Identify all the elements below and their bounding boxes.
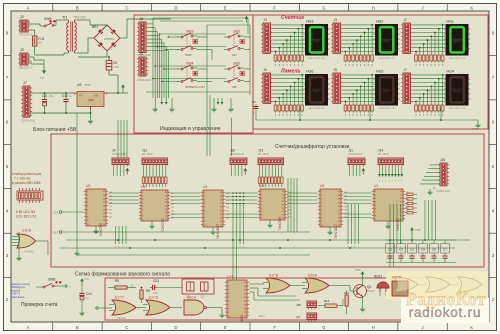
svg-text:J4: J4 bbox=[264, 18, 268, 22]
svg-text:Tr1: Tr1 bbox=[62, 16, 67, 20]
display section bottom rail bbox=[256, 119, 478, 121]
svg-text:7805: 7805 bbox=[84, 83, 91, 87]
svg-text:R6: R6 bbox=[146, 289, 150, 293]
ground below U9 bbox=[90, 118, 92, 121]
connector J4 bbox=[263, 23, 271, 53]
svg-text:K: K bbox=[470, 325, 473, 330]
svg-text:HG6: HG6 bbox=[306, 70, 313, 74]
svg-text:Блок питания +5В: Блок питания +5В bbox=[33, 127, 77, 133]
svg-text:74HC595: 74HC595 bbox=[161, 218, 165, 232]
svg-text:CONN-SIL5: CONN-SIL5 bbox=[230, 152, 244, 156]
PWR arrow capacitor bank bbox=[411, 228, 413, 234]
resistor array under HG4 bbox=[415, 105, 418, 111]
svg-text:4060: 4060 bbox=[240, 315, 244, 322]
svg-text:J1: J1 bbox=[20, 15, 24, 19]
svg-text:1A: 1A bbox=[39, 41, 43, 45]
svg-text:ПОЛ2: ПОЛ2 bbox=[185, 54, 192, 57]
svg-text:C3: C3 bbox=[399, 247, 403, 251]
svg-text:Счетчик/дешифратор установки: Счетчик/дешифратор установки bbox=[275, 144, 350, 150]
section border: display block bbox=[253, 15, 488, 129]
svg-text:20u: 20u bbox=[49, 94, 54, 98]
svg-text:MPX1: MPX1 bbox=[384, 91, 391, 93]
svg-text:J5: J5 bbox=[139, 52, 143, 56]
svg-text:U3: U3 bbox=[260, 184, 264, 188]
svg-text:C23: C23 bbox=[153, 279, 159, 283]
svg-text:radiokot.ru: radiokot.ru bbox=[409, 305, 482, 320]
svg-text:SW1: SW1 bbox=[233, 30, 240, 34]
svg-text:MPX1: MPX1 bbox=[314, 41, 321, 43]
svg-text:G: G bbox=[322, 6, 325, 11]
svg-text:HG4: HG4 bbox=[447, 70, 454, 74]
svg-text:B: B bbox=[76, 6, 79, 11]
resistor array under J12 bbox=[142, 167, 167, 192]
svg-text:J16: J16 bbox=[440, 158, 445, 162]
svg-text:Индикация и управление: Индикация и управление bbox=[160, 126, 221, 132]
svg-text:U10, В12 U13: U10, В12 U13 bbox=[16, 215, 36, 219]
watermark ghost panel bbox=[386, 271, 488, 299]
resistor array under HG6 bbox=[274, 105, 277, 111]
wires connecting switch rows bbox=[197, 25, 250, 95]
ground under Q2 bbox=[362, 306, 364, 309]
svg-text:C: C bbox=[125, 325, 128, 330]
svg-text:J5: J5 bbox=[334, 68, 338, 72]
svg-text:U9: U9 bbox=[77, 83, 81, 87]
resistor array under HG3 bbox=[274, 55, 277, 61]
resistor network symbol bbox=[17, 188, 43, 203]
arrow row under J14 bbox=[378, 167, 403, 183]
wire fan J2 to HG1 bbox=[413, 24, 445, 55]
ground symbols bottom of indication section bbox=[154, 98, 156, 106]
svg-text:HG3: HG3 bbox=[306, 20, 313, 24]
buzzer BUZ1 re-stamp over panel bbox=[377, 282, 389, 288]
bottom rail of indication section bbox=[146, 91, 250, 93]
svg-text:VD: VD bbox=[40, 76, 44, 80]
svg-text:BR1: BR1 bbox=[92, 25, 98, 29]
svg-text:U23:A: U23:A bbox=[308, 274, 318, 278]
svg-text:J9: J9 bbox=[112, 148, 116, 152]
junction dots on buses bbox=[117, 239, 119, 241]
svg-text:74HC4017: 74HC4017 bbox=[334, 224, 338, 239]
section border: sound block bbox=[105, 278, 478, 320]
svg-text:U17:B: U17:B bbox=[269, 274, 278, 278]
svg-text:CONN-SIL5: CONN-SIL5 bbox=[348, 152, 362, 156]
svg-text:0.1u: 0.1u bbox=[153, 291, 159, 295]
svg-text:74HC4017: 74HC4017 bbox=[216, 224, 220, 239]
svg-text:J2: J2 bbox=[20, 48, 24, 52]
crystal network ZQ1 bbox=[182, 279, 214, 299]
svg-text:BUZ1: BUZ1 bbox=[374, 275, 382, 279]
svg-text:J14: J14 bbox=[378, 148, 383, 152]
svg-text:7SEG-MPX1-CA: 7SEG-MPX1-CA bbox=[308, 57, 325, 60]
svg-text:C7: C7 bbox=[443, 247, 447, 251]
fuse FU1 bbox=[33, 36, 38, 46]
svg-text:J3: J3 bbox=[334, 18, 338, 22]
svg-text:ML-16GF: ML-16GF bbox=[142, 152, 153, 156]
svg-text:7SEG-MPX1-CA: 7SEG-MPX1-CA bbox=[449, 57, 466, 60]
connector J37 bbox=[307, 313, 317, 320]
svg-text:B: B bbox=[76, 325, 79, 330]
svg-text:U21: U21 bbox=[227, 275, 233, 279]
svg-text:74HC595: 74HC595 bbox=[396, 218, 400, 232]
bridge rectifier BR1 bbox=[92, 25, 120, 51]
section border: indication and control bbox=[134, 15, 253, 133]
terminal circles bbox=[65, 285, 67, 287]
svg-text:HG1: HG1 bbox=[447, 20, 454, 24]
svg-text:MPX1: MPX1 bbox=[454, 41, 461, 43]
connector J38 bbox=[307, 301, 317, 308]
left vertical wires to bottom bbox=[18, 67, 20, 255]
capacitor C24 bbox=[81, 285, 83, 293]
svg-text:C10: C10 bbox=[62, 94, 68, 98]
svg-text:Ламель: Ламель bbox=[280, 69, 301, 75]
svg-text:J6: J6 bbox=[264, 68, 268, 72]
svg-text:TBLOCK-I2: TBLOCK-I2 bbox=[19, 66, 33, 70]
svg-text:C4: C4 bbox=[410, 247, 414, 251]
svg-text:C22: C22 bbox=[200, 296, 205, 299]
svg-text:GND: GND bbox=[88, 98, 94, 102]
resistor array under J13 bbox=[258, 167, 283, 192]
svg-text:Счетчик: Счетчик bbox=[281, 15, 304, 21]
svg-text:J37: J37 bbox=[296, 315, 301, 319]
wires from U21 to gates bbox=[249, 284, 300, 300]
svg-text:MPX1: MPX1 bbox=[384, 41, 391, 43]
svg-text:2W005G: 2W005G bbox=[104, 37, 114, 41]
svg-text:PWR: PWR bbox=[355, 269, 361, 272]
svg-text:D: D bbox=[175, 6, 178, 11]
svg-text:J8: J8 bbox=[139, 17, 143, 21]
input wire from check area bbox=[96, 307, 98, 309]
svg-text:R14: R14 bbox=[324, 299, 330, 303]
svg-text:CONN-SIL5: CONN-SIL5 bbox=[137, 78, 151, 82]
svg-text:J38: J38 bbox=[296, 303, 301, 307]
svg-text:в разъём МВ1-МВ6: в разъём МВ1-МВ6 bbox=[12, 181, 41, 185]
connector J2 bbox=[403, 23, 411, 53]
svg-text:J10: J10 bbox=[230, 148, 235, 152]
svg-text:CLK: CLK bbox=[53, 211, 59, 215]
svg-text:C11: C11 bbox=[42, 94, 48, 98]
transistor Q2 bbox=[338, 280, 375, 306]
svg-text:SW2: SW2 bbox=[233, 62, 240, 66]
svg-text:C: C bbox=[125, 6, 128, 11]
svg-text:ML-16GF: ML-16GF bbox=[378, 152, 389, 156]
long horizontal bus wires bbox=[66, 239, 470, 241]
svg-text:TBLOCK-I2: TBLOCK-I2 bbox=[19, 33, 33, 37]
svg-text:J: J bbox=[421, 325, 423, 330]
svg-text:VCC: VCC bbox=[84, 278, 89, 281]
svg-text:C4: C4 bbox=[252, 100, 256, 104]
wire fan J4 to HG3 bbox=[273, 24, 305, 55]
svg-text:1u: 1u bbox=[86, 296, 90, 300]
svg-text:MPX1: MPX1 bbox=[314, 91, 321, 93]
wires IC interconnect bbox=[108, 192, 371, 217]
svg-text:D: D bbox=[175, 325, 178, 330]
svg-text:SW3: SW3 bbox=[186, 30, 193, 34]
connector J3 bbox=[333, 23, 341, 53]
svg-text:VI: VI bbox=[79, 94, 82, 98]
horizontal feed wires to switch rows bbox=[152, 33, 226, 82]
svg-text:74HC595: 74HC595 bbox=[99, 223, 103, 237]
svg-text:470u: 470u bbox=[113, 65, 120, 69]
svg-text:J12: J12 bbox=[142, 148, 147, 152]
svg-text:A: A bbox=[27, 6, 30, 11]
svg-text:74HC595: 74HC595 bbox=[278, 217, 282, 231]
OR gate U10:B bbox=[12, 229, 48, 254]
top bus wires of indication section bbox=[137, 17, 248, 64]
svg-text:SW4: SW4 bbox=[186, 62, 193, 66]
svg-text:1u: 1u bbox=[69, 94, 73, 98]
capacitor bank C2-C7 bbox=[386, 240, 456, 263]
svg-text:E: E bbox=[224, 325, 227, 330]
svg-text:U17:D: U17:D bbox=[149, 296, 159, 300]
svg-text:7SEG-MPX1-CA: 7SEG-MPX1-CA bbox=[378, 57, 395, 60]
resistor array under HG2 bbox=[344, 55, 347, 61]
svg-text:E: E bbox=[224, 6, 227, 11]
resistor array under HG1 bbox=[415, 55, 418, 61]
capacitor C9 bbox=[108, 57, 110, 60]
svg-text:J13: J13 bbox=[258, 148, 263, 152]
PWR arrow sound section bbox=[362, 272, 364, 278]
buzzer BUZ1 bbox=[374, 275, 389, 297]
connector J16 right side bbox=[440, 163, 447, 186]
connector J7 bbox=[403, 73, 411, 103]
down arrows bottom of indication section bbox=[161, 98, 163, 102]
drop wires below small connectors bbox=[114, 167, 365, 177]
GND arrow display section bbox=[477, 120, 479, 122]
wires: transformer to bridge and switch bbox=[44, 20, 45, 26]
svg-text:7SEG-MPX1-CA: 7SEG-MPX1-CA bbox=[449, 107, 466, 110]
ground near U21 bbox=[221, 308, 223, 313]
svg-text:74HC32: 74HC32 bbox=[24, 250, 34, 254]
PWR arrow top of indication section bbox=[246, 17, 248, 23]
input terminal CLK left bbox=[59, 211, 62, 214]
connector J5 bbox=[333, 73, 341, 103]
vertical wire bundles middle bbox=[115, 95, 436, 281]
svg-text:CONN-SIL8: CONN-SIL8 bbox=[21, 119, 35, 123]
ground symbols under middle ICs bbox=[95, 226, 97, 228]
svg-text:J11: J11 bbox=[348, 148, 353, 152]
svg-text:HG2: HG2 bbox=[376, 20, 383, 24]
svg-text:H: H bbox=[372, 325, 375, 330]
svg-text:U10:B: U10:B bbox=[22, 229, 31, 233]
svg-text:7SEG-MPX1-CA: 7SEG-MPX1-CA bbox=[378, 107, 395, 110]
svg-text:SW6: SW6 bbox=[48, 278, 55, 282]
ground under J16 bbox=[433, 187, 435, 189]
svg-text:PWR: PWR bbox=[415, 228, 421, 232]
svg-text:H: H bbox=[372, 6, 375, 11]
connector J6 bbox=[263, 73, 271, 103]
watermark white panel bbox=[401, 298, 489, 323]
ground bottom-left 2 bbox=[76, 250, 78, 253]
input terminal RST left bbox=[59, 231, 62, 234]
svg-text:Q2: Q2 bbox=[367, 285, 371, 289]
svg-text:(имитация): (имитация) bbox=[11, 295, 24, 299]
svg-text:R5: R5 bbox=[115, 279, 119, 283]
svg-text:J7: J7 bbox=[23, 81, 27, 85]
svg-text:U5: U5 bbox=[141, 185, 145, 189]
ground bottom-left 1 bbox=[18, 250, 20, 255]
svg-text:U2: U2 bbox=[320, 184, 324, 188]
svg-text:MPX1: MPX1 bbox=[454, 91, 461, 93]
svg-text:CONN-SIL6: CONN-SIL6 bbox=[436, 189, 450, 193]
svg-text:К В1 U10, В3: К В1 U10, В3 bbox=[16, 210, 35, 214]
transformer TR1 bbox=[62, 16, 86, 54]
svg-text:GND: GND bbox=[472, 127, 478, 131]
power wires bbox=[30, 92, 41, 94]
svg-text:СБР: СБР bbox=[232, 86, 237, 89]
svg-text:K: K bbox=[470, 6, 473, 11]
resistor chain right of U1 bbox=[405, 193, 417, 214]
resistor array under HG5 bbox=[344, 105, 347, 111]
svg-text:74HC32: 74HC32 bbox=[117, 317, 126, 320]
arrow to supply net bbox=[42, 70, 46, 74]
svg-text:RST: RST bbox=[53, 231, 59, 235]
wire fan J3 to HG2 bbox=[343, 24, 375, 55]
svg-text:7 × 150 Ом: 7 × 150 Ом bbox=[14, 177, 30, 181]
svg-text:Проверка счета: Проверка счета bbox=[21, 302, 58, 308]
svg-text:U23:A: U23:A bbox=[258, 315, 265, 318]
PWR arrow above C24 bbox=[81, 279, 83, 285]
svg-text:СЕТ: СЕТ bbox=[232, 54, 237, 57]
svg-text:J2: J2 bbox=[404, 18, 408, 22]
svg-text:6 набор резисторов: 6 набор резисторов bbox=[12, 172, 42, 176]
pin label texts beside ICs bbox=[109, 192, 410, 220]
svg-text:C6: C6 bbox=[432, 247, 436, 251]
svg-text:A: A bbox=[27, 325, 30, 330]
svg-text:G: G bbox=[322, 325, 325, 330]
wire fan J7 to HG4 bbox=[413, 74, 445, 105]
svg-text:ML-16GF: ML-16GF bbox=[258, 152, 269, 156]
svg-text:C2: C2 bbox=[388, 247, 392, 251]
svg-text:J: J bbox=[421, 6, 423, 11]
svg-text:BC547: BC547 bbox=[367, 289, 375, 293]
PWR arrow for +5V rail bbox=[122, 85, 124, 91]
svg-text:U1: U1 bbox=[374, 184, 378, 188]
section border: counter/decoder block bbox=[51, 134, 484, 267]
svg-text:ПРОВЕРКА СЧЕТ: ПРОВЕРКА СЧЕТ bbox=[185, 86, 205, 89]
vertical drops from resistor arrays to rail bbox=[299, 107, 301, 120]
svg-text:U17:C: U17:C bbox=[115, 296, 125, 300]
svg-text:U4: U4 bbox=[203, 185, 207, 189]
svg-text:J7: J7 bbox=[404, 68, 408, 72]
wire bus from J8 to switches bbox=[148, 24, 168, 98]
svg-text:U22:A: U22:A bbox=[187, 296, 197, 300]
svg-text:HG5: HG5 bbox=[376, 70, 383, 74]
ground below C24 bbox=[81, 310, 83, 313]
svg-text:7SEG-MPX1-CA: 7SEG-MPX1-CA bbox=[308, 107, 325, 110]
svg-text:Схема формирования звукового с: Схема формирования звукового сигнала bbox=[75, 272, 170, 278]
svg-text:U8: U8 bbox=[86, 184, 90, 188]
ghost gates in watermark bbox=[394, 277, 482, 292]
wire fan J6 to HG6 bbox=[273, 74, 305, 105]
svg-text:C5: C5 bbox=[421, 247, 425, 251]
svg-text:TPA-253: TPA-253 bbox=[73, 16, 86, 20]
fan wires J16 bbox=[420, 165, 440, 184]
wire fan J5 to HG5 bbox=[343, 74, 375, 105]
